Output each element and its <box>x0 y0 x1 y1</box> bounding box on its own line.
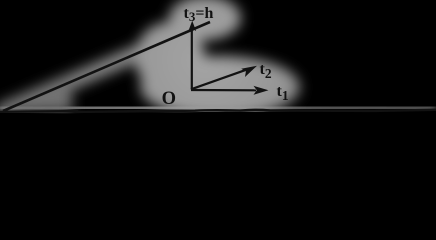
svg-text:t3=h: t3=h <box>184 5 214 24</box>
ink layer <box>0 22 436 112</box>
wire: slanted line from ground vertex to top <box>3 22 210 111</box>
arrowhead t2 <box>241 66 257 77</box>
halo glow layer <box>0 0 436 118</box>
arrowhead t1 <box>254 86 269 95</box>
vector t1 shaft <box>191 89 256 92</box>
vector t2 shaft <box>191 70 245 89</box>
wire: ground line right segment <box>76 110 436 112</box>
vector t3 shaft <box>191 26 193 90</box>
svg-text:O: O <box>162 89 176 109</box>
arrowhead t3 <box>188 21 196 32</box>
wire: ground line left segment <box>0 110 78 113</box>
